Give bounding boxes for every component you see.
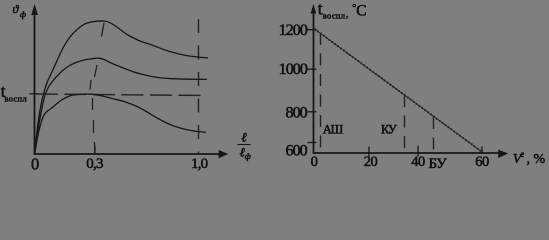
middle curve: [35, 58, 207, 154]
x-axis arrowhead (left graph): [219, 150, 229, 158]
svg-text:0: 0: [311, 154, 318, 170]
svg-text:0: 0: [31, 155, 39, 174]
svg-text:г: г: [521, 150, 525, 160]
top curve: [35, 21, 208, 154]
dashed vertical line КУ: [404, 95, 406, 153]
dashed vertical line at 1,0: [198, 19, 200, 154]
svg-text:воспл: воспл: [323, 11, 346, 21]
svg-text:20: 20: [364, 154, 378, 170]
svg-text:800: 800: [285, 104, 307, 121]
x-axis (left graph): [34, 153, 220, 155]
dashed vertical line БУ: [433, 117, 435, 155]
y-axis arrowhead (right graph): [311, 4, 317, 14]
dashed horizontal line t_воспл: [36, 94, 206, 96]
tick on y-axis at t_воспл level: [30, 93, 39, 95]
dashed slanted line through curve peaks (0,3): [90, 23, 104, 154]
svg-text:БУ: БУ: [429, 156, 448, 172]
x-axis ticks (right graph): [369, 146, 482, 157]
svg-text:40: 40: [411, 154, 425, 170]
svg-text:ℓ: ℓ: [241, 129, 247, 144]
bottom curve: [35, 94, 206, 154]
y-axis arrowhead (left graph): [31, 4, 38, 15]
y-axis (left graph): [34, 12, 36, 155]
x-axis arrowhead (right graph): [498, 150, 508, 158]
svg-text:600: 600: [285, 143, 307, 160]
svg-text:1200: 1200: [279, 22, 308, 39]
svg-text:0,3: 0,3: [86, 156, 103, 172]
svg-text:C: C: [356, 3, 366, 20]
svg-text:воспл: воспл: [5, 94, 28, 104]
y-axis (right graph): [313, 11, 315, 154]
svg-text:КУ: КУ: [381, 122, 397, 136]
svg-text:ф: ф: [20, 9, 26, 19]
svg-text:АШ: АШ: [323, 122, 344, 136]
y-axis ticks (right graph): [308, 30, 317, 143]
sloping line t_воспл(V): [315, 29, 482, 152]
x-axis (right graph): [313, 152, 500, 154]
svg-text:1,0: 1,0: [191, 156, 208, 172]
svg-text:60: 60: [475, 154, 489, 170]
svg-text:1000: 1000: [279, 61, 308, 78]
dashed vertical line АШ: [320, 33, 322, 154]
svg-text:, %: , %: [527, 152, 546, 167]
tick at 0,3 on x-axis: [94, 147, 96, 155]
svg-text:,: ,: [346, 9, 349, 20]
